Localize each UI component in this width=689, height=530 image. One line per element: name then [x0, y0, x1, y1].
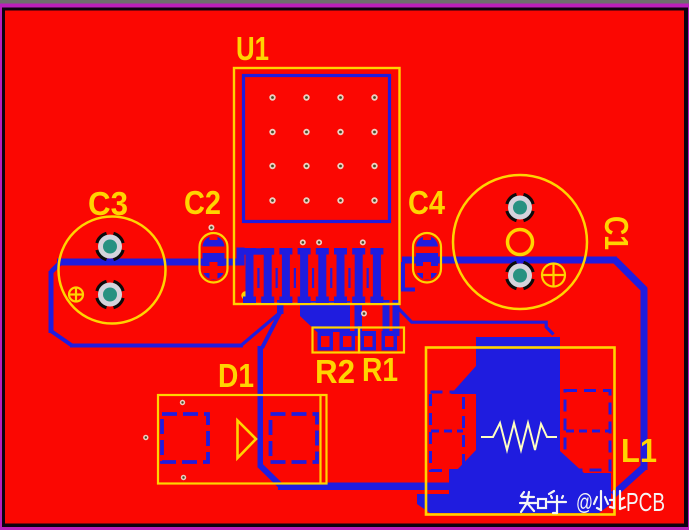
IC U1 keepout box: [244, 76, 390, 222]
capacitor C1 pad 1: [508, 195, 533, 220]
IC U1 clearance dashes: [257, 268, 368, 288]
capacitor C3 outline: [59, 217, 166, 324]
inductor L1 pad 2 divider dashes: [566, 430, 610, 433]
diode D1 pad 2 dashed: [271, 414, 318, 462]
svg-text:PCB: PCB: [626, 487, 665, 517]
wire blob U1 pads to R2: [300, 301, 350, 332]
capacitor C3 plus mark: [68, 287, 84, 303]
svg-text:R2: R2: [315, 353, 355, 390]
svg-text:C2: C2: [184, 184, 221, 221]
wire C3 to C2 to U1 pin1 (top net): [49, 248, 281, 348]
IC U1 pads row: [243, 248, 383, 303]
vias near D1: [143, 400, 186, 480]
wire U1 pad2 down to D1 and under to L1: [258, 300, 481, 490]
resistor R1 pads: [361, 331, 398, 351]
screen gray strip: [0, 0, 689, 5]
IC U1 via grid: [269, 94, 377, 203]
capacitor C1 center ring: [508, 230, 533, 255]
svg-text:D1: D1: [218, 357, 254, 394]
inductor L1 pad 2 dashed: [565, 391, 610, 471]
diode D1 triangle: [238, 421, 257, 459]
wire thin R1 to L1 column: [397, 307, 554, 335]
vias above U1 pads: [300, 239, 366, 245]
diode D1 pad 1 dashed: [162, 414, 208, 462]
capacitor C3 pad 1: [98, 234, 123, 259]
wire thin stub near C4: [401, 262, 415, 292]
wire U1 pad7 to R1 left pad: [355, 300, 363, 336]
diode D1 box: [158, 395, 327, 484]
capacitor C1 outline: [453, 175, 587, 309]
resistor R1 box: [359, 328, 404, 353]
capacitor C4 body: [413, 233, 441, 283]
IC U1 silkscreen box: [234, 68, 400, 304]
svg-text:C1: C1: [598, 216, 635, 250]
inductor L1 silkscreen box: [426, 348, 615, 515]
svg-text:C4: C4: [408, 184, 446, 221]
resistor R2 pads: [318, 331, 356, 351]
capacitor C1 plus mark: [541, 263, 566, 288]
inductor L1 copper pour: [417, 337, 611, 513]
inductor L1 pad 1 dashed: [431, 392, 464, 471]
svg-text:C3: C3: [88, 185, 128, 222]
via above C2: [208, 225, 214, 231]
svg-text:R1: R1: [362, 351, 398, 388]
wire C4 to C1 to L1 (right net): [402, 257, 648, 496]
inductor L1 pad 1 divider dashes: [431, 430, 463, 433]
watermark at and PCB text: [576, 487, 665, 517]
capacitor C1 pad 2: [508, 263, 533, 288]
svg-text:U1: U1: [236, 30, 269, 67]
via near R1 R2: [361, 311, 367, 317]
IC U1 pin1 dot: [241, 291, 249, 299]
wire U1 pad8 to R1 right pad (pair): [383, 300, 400, 336]
svg-text:L1: L1: [621, 432, 657, 469]
svg-text:@: @: [576, 489, 593, 515]
capacitor C2 body: [200, 233, 228, 283]
capacitor C3 pad 2: [98, 282, 123, 307]
inductor L1 zigzag symbol: [481, 423, 557, 450]
resistor R2 box: [313, 328, 360, 353]
inductor L1 dashed trace in red foot: [415, 485, 452, 488]
watermark: [520, 491, 625, 513]
